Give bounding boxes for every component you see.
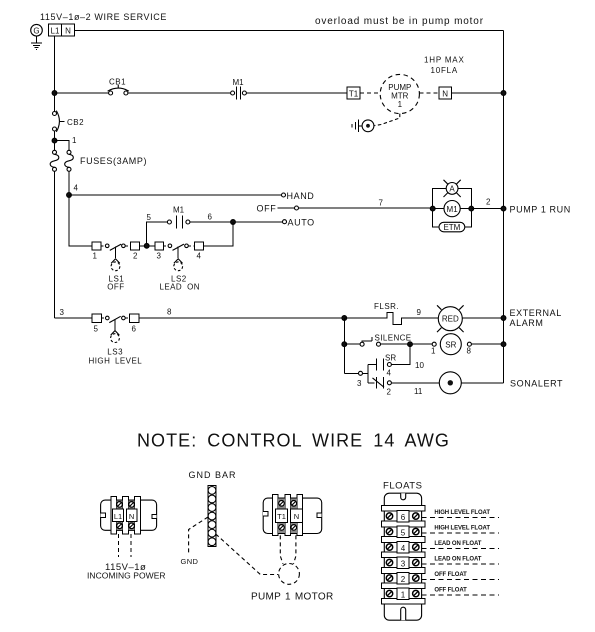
- svg-text:N: N: [294, 512, 299, 521]
- floats terminal 4: [386, 541, 419, 553]
- wire dashed float leads and labels: [422, 510, 499, 595]
- svg-text:N: N: [129, 512, 134, 521]
- svg-text:HIGH LEVEL FLOAT: HIGH LEVEL FLOAT: [434, 526, 490, 532]
- svg-text:OFF: OFF: [257, 204, 277, 214]
- wire rung3 seg2 node 8: [139, 308, 344, 319]
- pushbutton SILENCE: [360, 334, 411, 347]
- terminal block incoming power: [101, 496, 157, 534]
- svg-text:EXTERNAL: EXTERNAL: [510, 308, 562, 318]
- sounder SONALERT: [439, 372, 461, 394]
- wire rung1 seg2: [128, 92, 230, 94]
- fuse left: [50, 150, 59, 171]
- terminal strip floats body: [384, 493, 421, 620]
- terminal block pump motor: [263, 495, 322, 536]
- wire coil to rail, node 2: [471, 198, 503, 209]
- svg-text:ETM: ETM: [443, 223, 460, 232]
- coil M1: [444, 201, 460, 217]
- contact M1 rung1: [231, 78, 247, 100]
- label external alarm: [510, 308, 562, 328]
- node 4: [67, 184, 79, 198]
- svg-text:G: G: [33, 27, 39, 36]
- svg-text:5: 5: [401, 529, 406, 538]
- svg-text:SR: SR: [445, 340, 456, 349]
- node rung3 mid: [342, 316, 347, 321]
- svg-text:NOTE: CONTROL WIRE 14 AWG: NOTE: CONTROL WIRE 14 AWG: [137, 431, 450, 451]
- svg-text:3: 3: [357, 379, 362, 388]
- floats terminal 1: [386, 588, 419, 600]
- svg-text:ALARM: ALARM: [510, 318, 544, 328]
- fuse right: [65, 150, 74, 171]
- svg-text:M1: M1: [447, 205, 459, 214]
- ground bar: [208, 486, 216, 547]
- svg-text:HAND: HAND: [287, 191, 315, 201]
- node auto junction: [231, 220, 236, 225]
- wire dashed motor to N: [419, 92, 438, 94]
- wire rung1 seg1: [55, 92, 109, 94]
- svg-text:3: 3: [60, 308, 65, 317]
- ground: [31, 36, 42, 50]
- terminal box 2: [131, 242, 140, 261]
- svg-text:2: 2: [133, 252, 138, 261]
- wire node4 down to LS rung: [69, 195, 92, 246]
- svg-text:GND BAR: GND BAR: [189, 470, 237, 480]
- svg-text:2: 2: [486, 198, 491, 207]
- floats terminal 2: [386, 572, 419, 584]
- node coil left: [430, 206, 435, 211]
- svg-text:N: N: [442, 89, 448, 98]
- node silence left: [342, 342, 347, 347]
- wire latch down from silence node: [391, 344, 410, 364]
- wire SR coil to rail: [471, 343, 503, 345]
- node 5: [147, 213, 168, 246]
- terminal box 4: [195, 242, 204, 261]
- floats separator bars: [382, 506, 426, 605]
- wire rung1 seg3: [246, 92, 347, 94]
- svg-text:1: 1: [401, 591, 406, 600]
- svg-text:M1: M1: [173, 206, 185, 215]
- svg-text:FLOATS: FLOATS: [383, 481, 423, 492]
- wire to sonalert node 11: [391, 383, 439, 396]
- wire OFF to coil, node 7: [299, 199, 433, 209]
- floats terminal 6: [386, 510, 419, 522]
- motor PUMP MTR 1: [380, 74, 419, 113]
- node silence right: [408, 342, 413, 347]
- terminal block L1 N: [49, 24, 75, 36]
- svg-text:4: 4: [197, 252, 202, 261]
- node coil rail: [501, 206, 506, 211]
- lamp RED: [437, 305, 464, 332]
- svg-text:9: 9: [417, 308, 422, 317]
- lamp A: [444, 180, 461, 197]
- wire fuse right to node4: [68, 172, 70, 195]
- terminal N rung1: [439, 87, 452, 99]
- wire fuse branch top: [55, 141, 70, 150]
- svg-text:SONALERT: SONALERT: [510, 379, 563, 389]
- wire dashed gnd to motor: [216, 534, 278, 575]
- svg-text:LEAD ON FLOAT: LEAD ON FLOAT: [434, 557, 481, 563]
- svg-text:8: 8: [467, 347, 472, 356]
- wire coil bracket: [433, 188, 472, 227]
- node rung3 right: [501, 316, 506, 321]
- contact SR NO: [368, 354, 396, 378]
- svg-text:OFF FLOAT: OFF FLOAT: [434, 588, 467, 594]
- svg-text:T1: T1: [277, 512, 286, 521]
- svg-text:RED: RED: [442, 315, 459, 324]
- svg-text:1: 1: [431, 347, 436, 356]
- svg-text:6: 6: [208, 213, 213, 222]
- svg-text:M1: M1: [233, 78, 245, 87]
- node 1: [52, 136, 77, 145]
- node rung1 right: [501, 91, 506, 96]
- breaker CB1: [108, 78, 129, 96]
- wire dashed motor leads: [280, 535, 296, 563]
- motor circle pump 1: [279, 564, 300, 585]
- wire HAND line: [69, 194, 282, 196]
- timer ETM: [439, 222, 465, 232]
- wire rung3 seg3: [462, 317, 503, 319]
- terminal box 5: [92, 314, 102, 334]
- svg-text:LEAD ON FLOAT: LEAD ON FLOAT: [434, 541, 481, 547]
- wire latch branch: [367, 365, 369, 383]
- svg-text:6: 6: [401, 513, 406, 522]
- floats terminal 5: [386, 526, 419, 538]
- svg-text:115V–1ø–2 WIRE SERVICE: 115V–1ø–2 WIRE SERVICE: [40, 12, 167, 22]
- svg-text:T1: T1: [349, 89, 359, 98]
- wire dashed incoming leads: [118, 534, 131, 557]
- svg-text:AUTO: AUTO: [288, 218, 315, 228]
- svg-text:LEAD ON: LEAD ON: [160, 282, 200, 291]
- svg-text:7: 7: [379, 199, 384, 208]
- svg-text:3: 3: [401, 560, 406, 569]
- svg-text:2: 2: [387, 388, 392, 397]
- svg-text:FLSR.: FLSR.: [374, 302, 399, 311]
- svg-text:2: 2: [401, 575, 406, 584]
- node LS junction: [144, 243, 149, 248]
- wire rung1 seg4: [451, 92, 503, 94]
- terminal circle 3: [344, 371, 368, 388]
- contact NC sonalert: [368, 377, 392, 397]
- svg-text:4: 4: [74, 184, 79, 193]
- svg-text:1HP MAX: 1HP MAX: [424, 56, 465, 65]
- svg-text:A: A: [449, 185, 455, 194]
- svg-text:PUMP 1 RUN: PUMP 1 RUN: [510, 204, 571, 214]
- svg-text:OFF FLOAT: OFF FLOAT: [434, 572, 467, 578]
- terminal box 6: [130, 314, 139, 334]
- wire left rail mid: [54, 131, 56, 150]
- wire to silence: [344, 343, 360, 345]
- terminal box 3: [155, 242, 164, 261]
- relay coil SR: [431, 334, 472, 356]
- selector HAND: [282, 191, 315, 201]
- node SR right: [501, 342, 506, 347]
- motor frame plug symbol: [352, 120, 374, 132]
- ground terminal G: [31, 24, 43, 36]
- wire left rail upper: [54, 36, 56, 111]
- label 1HP MAX 10FLA: [424, 56, 465, 76]
- svg-text:FUSES(3AMP): FUSES(3AMP): [80, 156, 147, 166]
- wire dashed gnd lead: [189, 517, 208, 553]
- svg-text:HIGH LEVEL FLOAT: HIGH LEVEL FLOAT: [434, 510, 490, 516]
- svg-text:4: 4: [387, 369, 392, 378]
- svg-text:SR: SR: [385, 354, 396, 363]
- selector AUTO: [283, 218, 315, 228]
- svg-text:5: 5: [94, 325, 99, 334]
- float switch LS3: [89, 316, 143, 365]
- breaker CB2: [53, 111, 85, 132]
- wire rung3 seg1: [55, 317, 92, 319]
- svg-text:L1: L1: [51, 26, 60, 35]
- wire top from N to right rail: [74, 30, 503, 32]
- svg-text:HIGH LEVEL: HIGH LEVEL: [89, 356, 143, 365]
- svg-text:3: 3: [157, 252, 162, 261]
- wire left rail lower: [54, 172, 56, 318]
- floats terminal 3: [386, 557, 419, 569]
- svg-text:CB2: CB2: [67, 118, 84, 127]
- float switch LS2: [160, 244, 200, 291]
- svg-text:overload must be in pump motor: overload must be in pump motor: [315, 16, 484, 27]
- svg-text:OFF: OFF: [107, 282, 125, 291]
- wire silence to SR coil: [381, 343, 433, 345]
- wire right rail: [503, 31, 505, 383]
- svg-text:INCOMING POWER: INCOMING POWER: [87, 571, 166, 581]
- flasher FLSR: [344, 302, 438, 325]
- terminal box 1: [92, 242, 101, 261]
- svg-text:11: 11: [414, 387, 423, 396]
- label incoming power: [87, 562, 166, 581]
- svg-text:4: 4: [401, 544, 406, 553]
- node rung1 left: [52, 91, 57, 96]
- svg-text:6: 6: [132, 325, 137, 334]
- selector OFF: [257, 204, 299, 214]
- svg-text:PUMP 1 MOTOR: PUMP 1 MOTOR: [251, 592, 333, 603]
- wire dashed motor ground lead: [375, 114, 400, 126]
- wire silence branch vertical: [343, 318, 345, 373]
- wire dashed T1 to motor: [360, 92, 380, 94]
- svg-text:5: 5: [147, 213, 152, 222]
- svg-text:1: 1: [398, 100, 403, 109]
- svg-text:GND: GND: [181, 557, 199, 566]
- wire riser box4 to auto line: [204, 222, 233, 246]
- svg-text:10: 10: [415, 361, 424, 370]
- contact M1 aux: [167, 206, 190, 229]
- float switch LS1: [101, 244, 130, 291]
- wire box2 to box3: [140, 245, 155, 247]
- wire node 6 to AUTO: [190, 213, 283, 223]
- svg-text:N: N: [65, 26, 71, 35]
- svg-text:CB1: CB1: [109, 78, 126, 87]
- svg-text:1: 1: [93, 252, 98, 261]
- terminal T1: [347, 87, 360, 99]
- svg-text:SILENCE: SILENCE: [375, 334, 412, 343]
- svg-text:L1: L1: [114, 512, 122, 521]
- svg-text:10FLA: 10FLA: [431, 66, 459, 75]
- wire sonalert to rail: [461, 382, 503, 384]
- svg-text:8: 8: [167, 308, 172, 317]
- node coil right: [469, 206, 474, 211]
- svg-text:1: 1: [72, 136, 77, 145]
